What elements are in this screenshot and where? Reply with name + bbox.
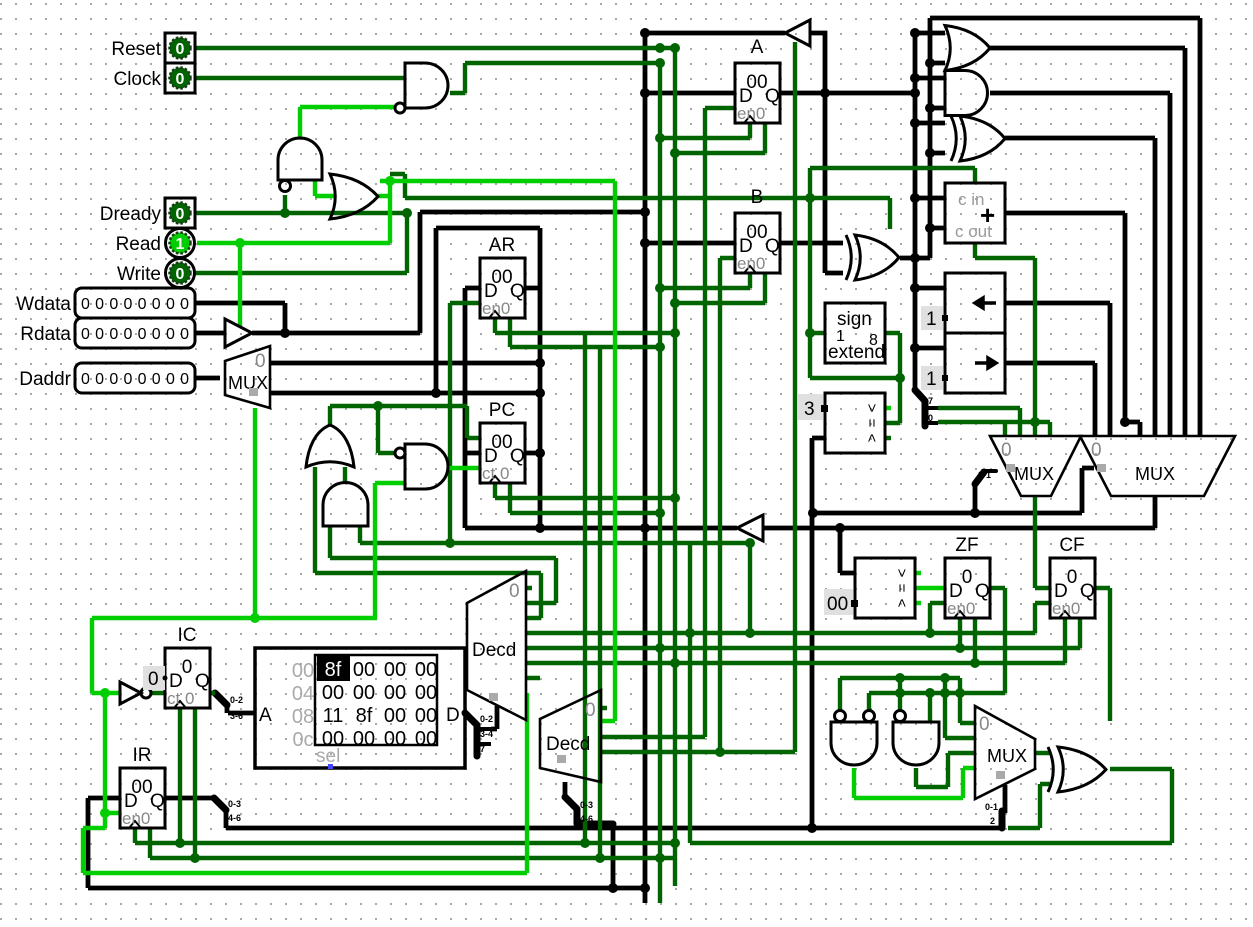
svg-text:00: 00 — [827, 594, 848, 615]
svg-text:0: 0 — [148, 669, 159, 690]
svg-text:PC: PC — [489, 400, 515, 421]
svg-text:Q: Q — [510, 281, 525, 302]
svg-text:1: 1 — [926, 369, 937, 390]
svg-text:en0: en0 — [1052, 599, 1080, 618]
svg-text:11: 11 — [323, 705, 344, 727]
svg-text:00: 00 — [353, 728, 375, 750]
svg-text:00: 00 — [384, 682, 406, 704]
svg-text:1: 1 — [926, 309, 937, 330]
svg-text:0-1: 0-1 — [985, 802, 998, 812]
svg-text:2: 2 — [990, 816, 995, 826]
svg-text:<: < — [863, 434, 880, 443]
svg-text:ct 0: ct 0 — [167, 689, 194, 708]
svg-text:0: 0 — [176, 206, 185, 223]
svg-text:<: < — [893, 599, 910, 608]
svg-text:0: 0 — [255, 351, 266, 372]
svg-text:Q: Q — [765, 236, 780, 257]
svg-text:00: 00 — [415, 728, 437, 750]
svg-text:Q: Q — [1080, 581, 1095, 602]
svg-text:en0: en0 — [947, 599, 975, 618]
svg-text:08: 08 — [292, 706, 314, 728]
svg-text:0: 0 — [176, 41, 185, 58]
svg-text:>: > — [863, 404, 880, 413]
svg-text:00: 00 — [292, 660, 314, 682]
svg-text:0: 0 — [928, 413, 933, 423]
svg-text:3: 3 — [804, 399, 815, 420]
svg-text:Reset: Reset — [111, 39, 161, 60]
svg-text:8f: 8f — [356, 705, 373, 727]
svg-text:3-4: 3-4 — [480, 729, 493, 739]
svg-text:0 0 0 0 0 0 0 0: 0 0 0 0 0 0 0 0 — [81, 371, 189, 388]
svg-text:Write: Write — [117, 264, 161, 285]
svg-text:0-2: 0-2 — [480, 714, 493, 724]
svg-text:B: B — [751, 187, 764, 208]
svg-text:1: 1 — [176, 236, 185, 253]
svg-text:00: 00 — [415, 705, 437, 727]
svg-text:IC: IC — [178, 625, 197, 646]
svg-text:=: = — [893, 584, 910, 593]
svg-text:Q: Q — [510, 446, 525, 467]
svg-text:AR: AR — [489, 235, 515, 256]
svg-text:en0: en0 — [737, 104, 765, 123]
svg-text:0 0 0 0 0 0 0 0: 0 0 0 0 0 0 0 0 — [81, 296, 189, 313]
svg-text:04: 04 — [292, 683, 314, 705]
svg-text:Decd: Decd — [472, 640, 516, 661]
svg-text:>: > — [893, 569, 910, 578]
svg-text:D: D — [446, 705, 460, 726]
svg-text:en0: en0 — [482, 299, 510, 318]
svg-text:0: 0 — [176, 71, 185, 88]
svg-text:MUX: MUX — [228, 373, 268, 393]
svg-text:Dready: Dready — [100, 204, 162, 225]
svg-text:1: 1 — [836, 328, 845, 345]
svg-text:7: 7 — [480, 744, 485, 754]
svg-text:00: 00 — [353, 682, 375, 704]
svg-text:Q: Q — [195, 671, 210, 692]
svg-text:CF: CF — [1059, 535, 1084, 556]
svg-text:0: 0 — [1091, 440, 1102, 461]
svg-text:7: 7 — [928, 396, 933, 406]
svg-text:0: 0 — [585, 700, 596, 721]
svg-text:ZF: ZF — [955, 535, 978, 556]
svg-text:00: 00 — [415, 682, 437, 704]
svg-text:sign: sign — [837, 309, 872, 330]
svg-text:00: 00 — [384, 728, 406, 750]
svg-text:0: 0 — [182, 657, 193, 678]
svg-text:0: 0 — [962, 567, 973, 588]
svg-text:4-6: 4-6 — [228, 813, 241, 823]
svg-text:Decd: Decd — [546, 734, 590, 755]
svg-text:Q: Q — [150, 791, 165, 812]
svg-text:Read: Read — [116, 234, 161, 255]
svg-text:00: 00 — [384, 705, 406, 727]
svg-text:0: 0 — [176, 266, 185, 283]
svg-text:0: 0 — [1001, 440, 1012, 461]
svg-text:Rdata: Rdata — [20, 324, 71, 345]
svg-text:8f: 8f — [325, 659, 342, 681]
svg-text:Q: Q — [765, 86, 780, 107]
svg-text:Q: Q — [975, 581, 990, 602]
svg-text:A: A — [259, 705, 272, 726]
svg-text:0 0 0 0 0 0 0 0: 0 0 0 0 0 0 0 0 — [81, 326, 189, 343]
svg-text:A: A — [751, 37, 764, 58]
svg-text:en0: en0 — [737, 254, 765, 273]
svg-text:4-6: 4-6 — [580, 814, 593, 824]
svg-text:00: 00 — [322, 682, 344, 704]
svg-text:+: + — [980, 200, 995, 230]
svg-text:00: 00 — [384, 659, 406, 681]
svg-text:Wdata: Wdata — [16, 294, 71, 315]
svg-text:0-3: 0-3 — [228, 799, 241, 809]
svg-text:3-6: 3-6 — [230, 711, 243, 721]
svg-text:00: 00 — [353, 659, 375, 681]
svg-text:en0: en0 — [122, 809, 150, 828]
svg-text:ct 0: ct 0 — [482, 464, 509, 483]
svg-text:0: 0 — [979, 714, 990, 735]
svg-text:Clock: Clock — [113, 69, 161, 90]
svg-text:0: 0 — [1067, 567, 1078, 588]
svg-text:MUX: MUX — [1135, 464, 1175, 484]
svg-text:0-1: 0-1 — [978, 470, 991, 480]
svg-text:0: 0 — [509, 581, 520, 602]
svg-text:0-2: 0-2 — [230, 695, 243, 705]
svg-text:Daddr: Daddr — [19, 369, 71, 390]
svg-text:sel: sel — [316, 746, 340, 767]
svg-text:0-3: 0-3 — [580, 800, 593, 810]
svg-text:=: = — [863, 419, 880, 428]
svg-text:00: 00 — [415, 659, 437, 681]
svg-text:MUX: MUX — [1014, 464, 1054, 484]
svg-text:0c: 0c — [292, 729, 313, 751]
svg-text:IR: IR — [133, 745, 152, 766]
svg-text:8: 8 — [869, 332, 878, 349]
svg-text:MUX: MUX — [987, 746, 1027, 766]
